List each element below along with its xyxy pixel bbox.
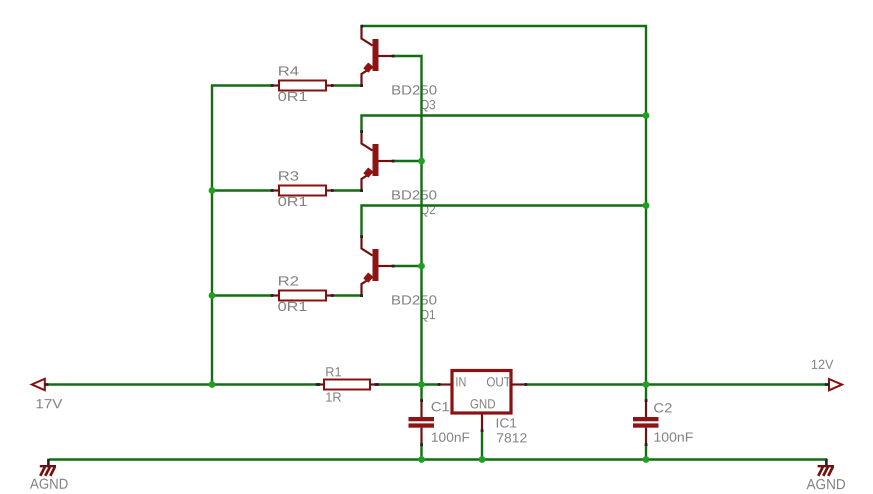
svg-text:12V: 12V <box>811 357 834 372</box>
svg-text:C1: C1 <box>431 399 450 414</box>
svg-text:0R1: 0R1 <box>278 299 308 314</box>
svg-text:R3: R3 <box>278 169 299 184</box>
svg-text:R2: R2 <box>278 274 299 289</box>
svg-text:R1: R1 <box>325 364 341 379</box>
svg-text:IC1: IC1 <box>496 416 518 431</box>
svg-text:100nF: 100nF <box>653 430 693 445</box>
svg-text:BD250: BD250 <box>391 82 437 97</box>
svg-text:7812: 7812 <box>496 430 527 445</box>
svg-text:100nF: 100nF <box>431 430 470 445</box>
svg-text:1R: 1R <box>325 390 341 405</box>
svg-text:17V: 17V <box>35 396 62 411</box>
svg-text:BD250: BD250 <box>391 187 437 202</box>
svg-text:BD250: BD250 <box>391 292 437 307</box>
svg-text:OUT: OUT <box>486 374 511 389</box>
svg-text:GND: GND <box>470 396 496 411</box>
svg-text:R4: R4 <box>278 64 299 79</box>
svg-text:IN: IN <box>455 374 466 389</box>
svg-text:0R1: 0R1 <box>278 89 308 104</box>
svg-text:C2: C2 <box>653 400 672 415</box>
svg-text:0R1: 0R1 <box>278 194 308 209</box>
svg-text:AGND: AGND <box>806 477 845 493</box>
svg-text:AGND: AGND <box>30 477 68 493</box>
